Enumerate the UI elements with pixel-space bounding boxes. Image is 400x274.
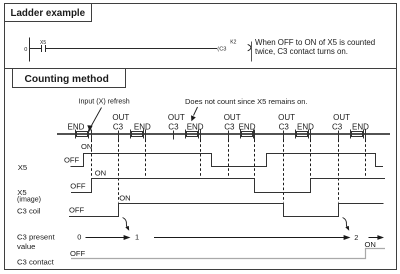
- row label X5 (image): [17, 188, 41, 204]
- svg-text:OUT: OUT: [278, 113, 295, 122]
- svg-text:C3: C3: [168, 122, 179, 131]
- note brace: [248, 42, 252, 62]
- C3 coil ON OFF labels: [69, 194, 131, 215]
- svg-text:OUT: OUT: [112, 113, 129, 122]
- svg-text:Input (X) refresh: Input (X) refresh: [79, 98, 130, 106]
- svg-text:When OFF to ON of X5 is counte: When OFF to ON of X5 is counted: [255, 38, 375, 47]
- svg-text:(C3: (C3: [217, 47, 226, 53]
- svg-text:X5: X5: [18, 163, 27, 172]
- X5 waveform: [71, 154, 384, 167]
- ladder: left power rail: [29, 38, 31, 62]
- row label C3 present value: [17, 232, 55, 251]
- svg-text:C3 coil: C3 coil: [17, 206, 41, 215]
- svg-text:Ladder example: Ladder example: [11, 8, 86, 19]
- svg-text:C3 contact: C3 contact: [17, 258, 55, 267]
- svg-text:C3: C3: [332, 122, 343, 131]
- svg-text:OUT: OUT: [333, 113, 350, 122]
- svg-text:K2: K2: [230, 39, 236, 45]
- END box scan3: [186, 122, 204, 138]
- svg-text:0: 0: [24, 47, 27, 53]
- svg-text:OFF: OFF: [69, 205, 85, 214]
- scan tick 4 + dashed: [254, 130, 256, 178]
- C3 coil waveform: [69, 204, 384, 217]
- X5 image ON OFF labels: [70, 169, 106, 191]
- svg-text:OFF: OFF: [64, 156, 80, 165]
- svg-text:OFF: OFF: [70, 249, 86, 258]
- svg-text:END: END: [352, 122, 369, 131]
- svg-text:2: 2: [354, 233, 358, 242]
- svg-text:OUT: OUT: [224, 113, 241, 122]
- X5 image waveform: [71, 179, 385, 193]
- coil C3 with K2: [217, 39, 236, 52]
- scan tick 6 + dashed: [365, 130, 367, 178]
- svg-text:C3: C3: [224, 122, 235, 131]
- svg-text:ON: ON: [81, 142, 92, 151]
- svg-text:Does not count since X5 remain: Does not count since X5 remains on.: [185, 97, 308, 106]
- section separator: [5, 68, 397, 70]
- present value arrow 0 to 1: [86, 235, 131, 240]
- X5 ON OFF labels: [64, 142, 92, 165]
- wire rung right: [46, 48, 218, 50]
- OUT C3 tick 2: [168, 113, 185, 140]
- annotation: Does not count: [185, 97, 308, 121]
- wire rung left: [30, 48, 42, 50]
- OUT C3 tick 1 + dashed: [112, 113, 129, 203]
- scan tick 5 + dashed: [310, 130, 312, 178]
- scan tick 2 + dashed: [145, 130, 147, 178]
- svg-text:END: END: [134, 122, 151, 131]
- svg-text:value: value: [17, 242, 35, 251]
- svg-text:END: END: [297, 122, 314, 131]
- annotation: Input (X) refresh: [79, 98, 130, 133]
- C3 contact waveform: [71, 249, 385, 259]
- svg-text:C3: C3: [279, 122, 290, 131]
- svg-text:ON: ON: [365, 240, 376, 249]
- svg-text:END: END: [239, 122, 256, 131]
- present value arrow 1 to 2: [154, 235, 351, 240]
- contact X5: [40, 40, 46, 52]
- scan tick 1 + dashed: [91, 130, 93, 178]
- svg-text:ON: ON: [119, 194, 130, 203]
- scan timeline: [57, 133, 390, 135]
- note text: [255, 38, 375, 56]
- OUT C3 tick 3 + dashed: [224, 113, 241, 178]
- svg-text:1: 1: [135, 233, 139, 242]
- END box scan2: [131, 122, 152, 138]
- svg-text:twice, C3 contact turns on.: twice, C3 contact turns on.: [255, 47, 348, 56]
- count-up curvy arrow 2: [343, 218, 350, 231]
- continue arrow: [369, 235, 385, 240]
- svg-text:0: 0: [77, 232, 81, 241]
- END box scan6: [351, 122, 370, 138]
- svg-text:END: END: [68, 122, 85, 131]
- svg-text:END: END: [187, 122, 204, 131]
- END box scan4: [239, 122, 256, 138]
- svg-text:ON: ON: [95, 169, 106, 178]
- END box scan5: [296, 122, 315, 138]
- svg-text:Counting method: Counting method: [25, 74, 109, 85]
- scan tick 3 + dashed: [200, 130, 202, 178]
- Counting method box: [13, 69, 126, 88]
- svg-text:(image): (image): [17, 195, 41, 203]
- svg-text:X5: X5: [40, 40, 46, 46]
- OUT C3 tick 5 + dashed: [332, 113, 350, 203]
- svg-text:C3 present: C3 present: [17, 232, 55, 241]
- OUT C3 tick 4 + dashed: [278, 113, 295, 203]
- Ladder example tab: [5, 4, 92, 22]
- svg-text:C3: C3: [113, 122, 124, 131]
- count-up curvy arrow 1: [123, 218, 130, 231]
- END box scan1: [68, 122, 89, 138]
- svg-text:OUT: OUT: [168, 113, 185, 122]
- svg-text:OFF: OFF: [70, 182, 86, 191]
